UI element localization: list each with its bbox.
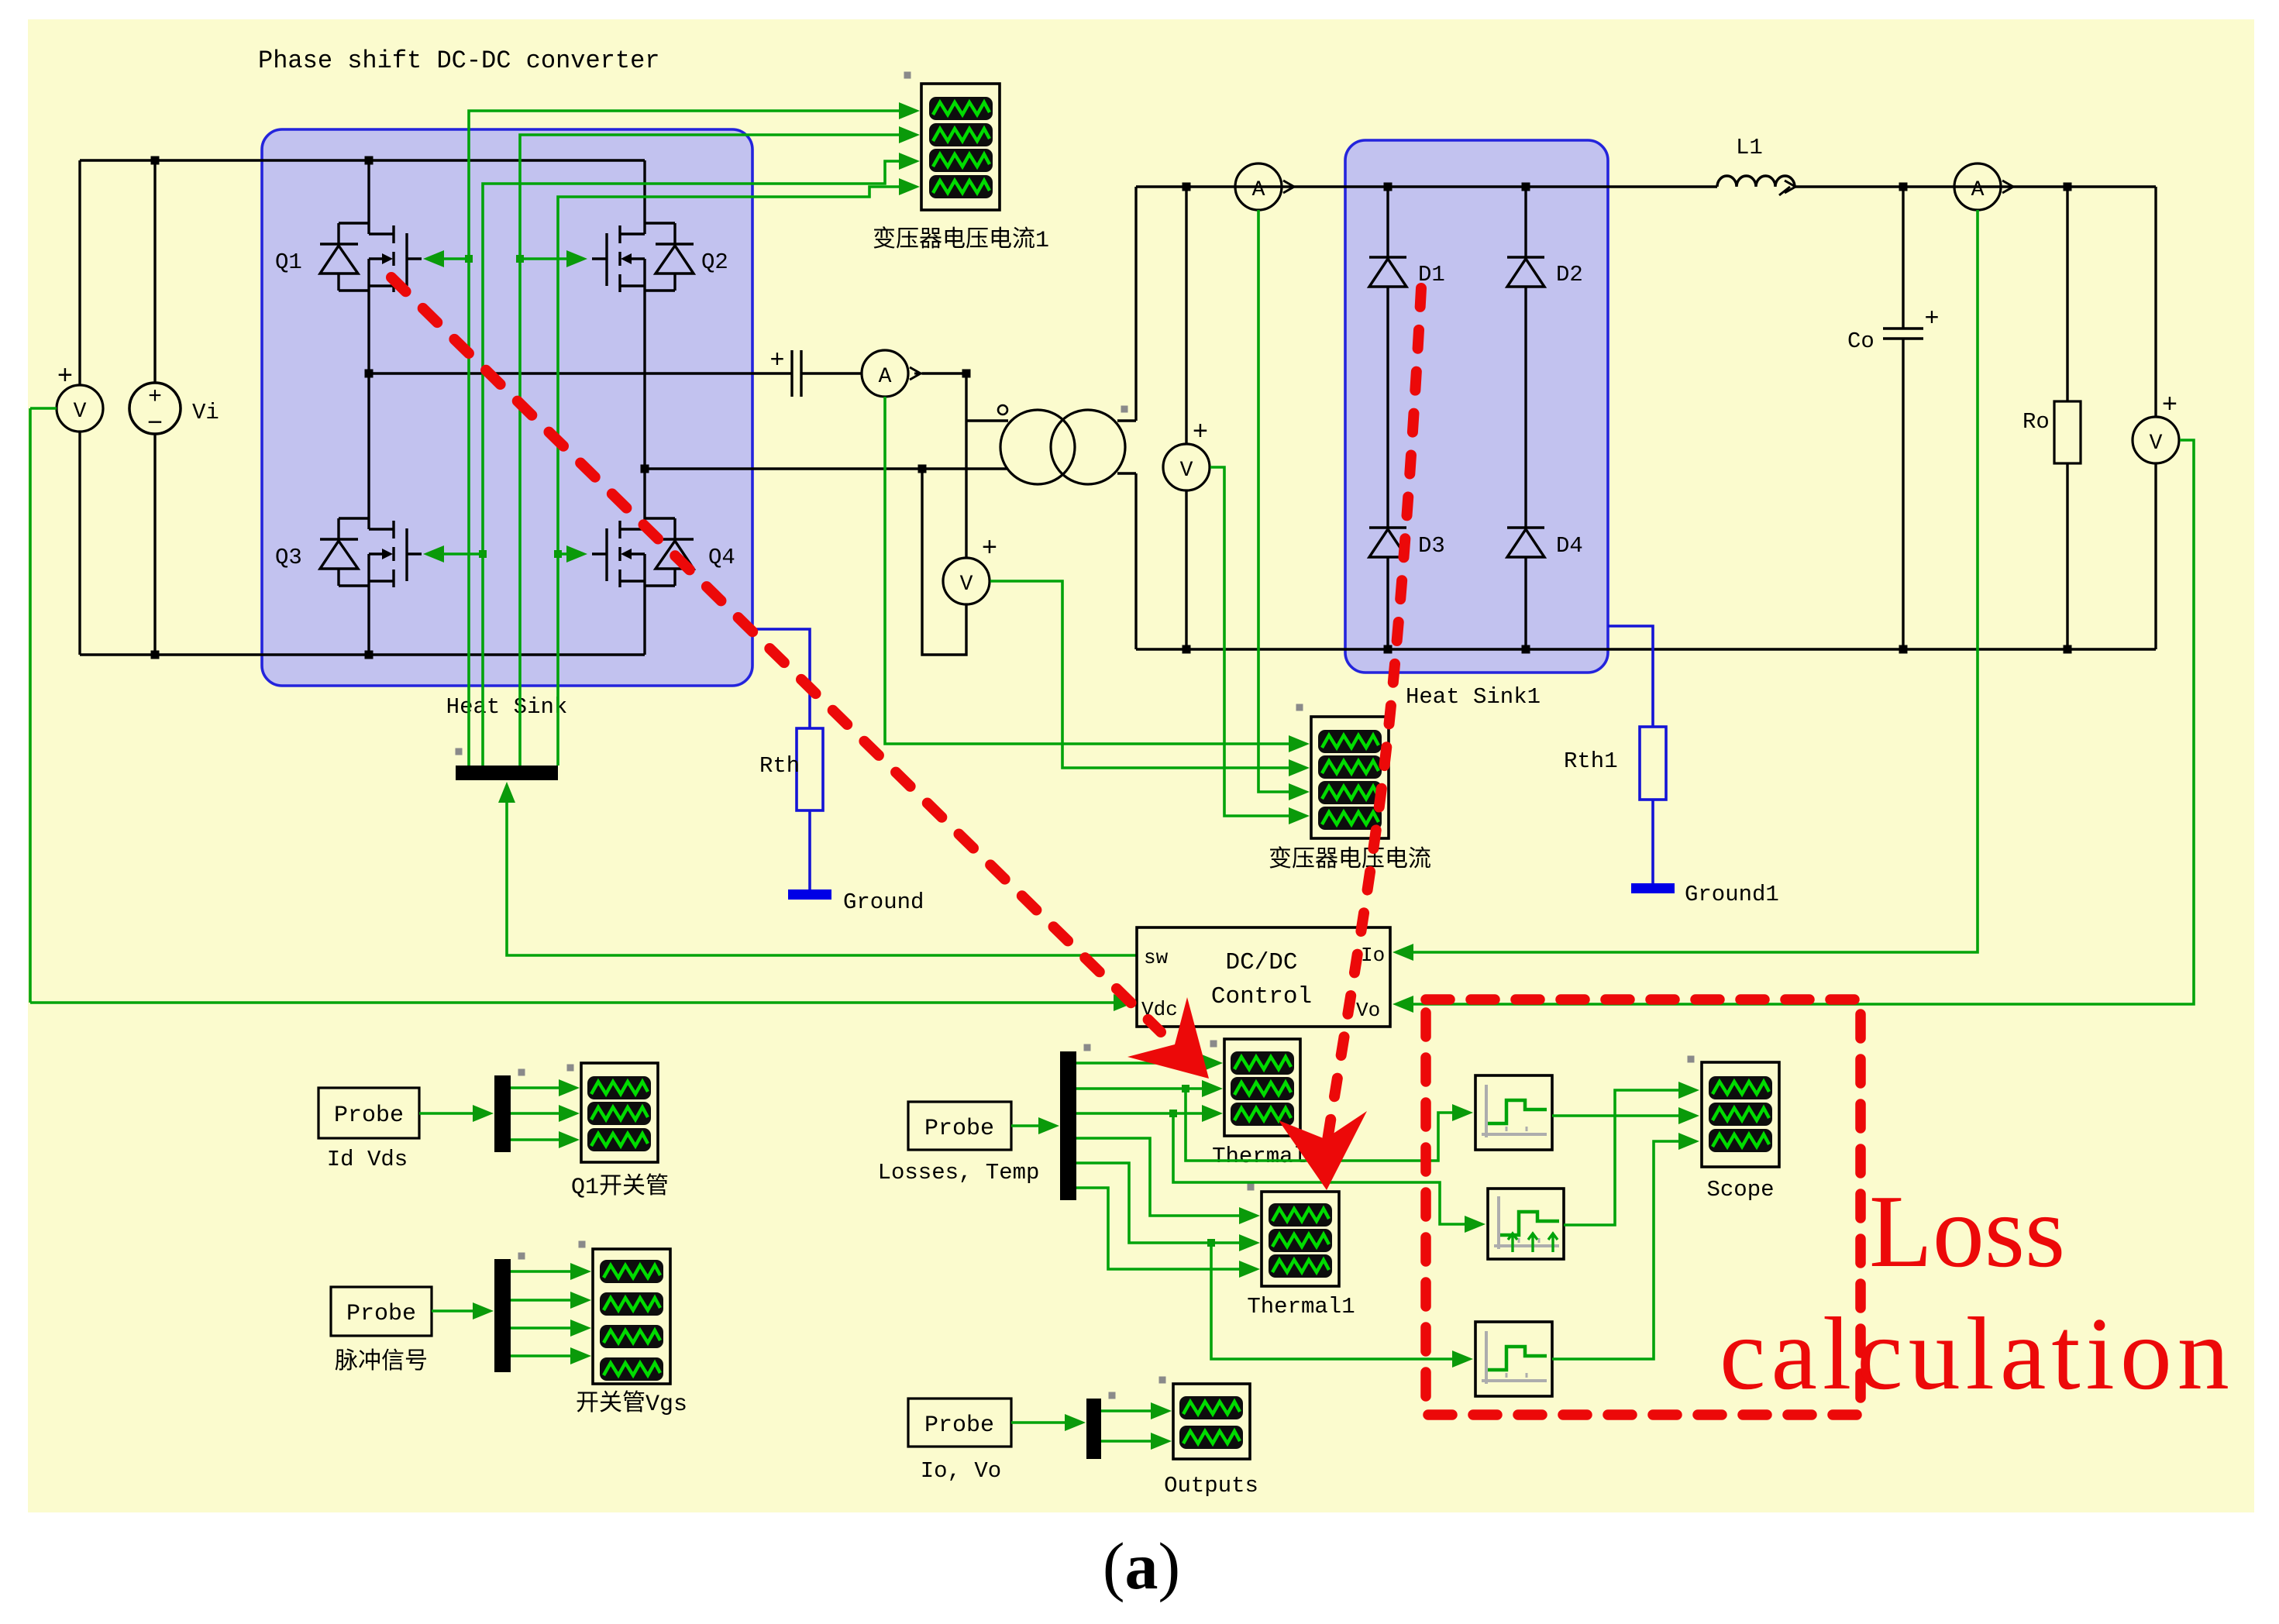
- node: Vi top junction: [151, 157, 160, 165]
- label Heat Sink1: [1406, 684, 1541, 710]
- node: V3 top junction: [1183, 183, 1191, 191]
- svg-text:A: A: [1971, 178, 1985, 202]
- scope Thermal: [1210, 1039, 1301, 1136]
- scope 变压器电压电流: [1296, 704, 1389, 839]
- wire: mux1 out3: [511, 1131, 580, 1148]
- wire: gate drive Q2 (to scope1 in2): [516, 126, 920, 766]
- label Q1: [275, 249, 302, 275]
- node: D2 top junction: [1522, 183, 1530, 191]
- wire: mux1 out1: [511, 1079, 580, 1096]
- scope Outputs: [1159, 1377, 1251, 1460]
- ground (Ground1): [1631, 883, 1675, 893]
- label L1: [1736, 135, 1763, 160]
- wire: mux3 out3 to Thermal in3: [1076, 1105, 1223, 1122]
- svg-text:V: V: [74, 400, 87, 424]
- transformer polarity mark primary: [998, 405, 1007, 415]
- wire: output voltmeter to Vo input: [1393, 440, 2194, 1013]
- ammeter A (output current): [1954, 163, 2013, 210]
- wire: mux3 out4 to Thermal1 in1: [1076, 1138, 1260, 1224]
- diode D3: [1369, 528, 1406, 649]
- wire: mux2 out1: [511, 1263, 591, 1280]
- node: Ro top junction: [2064, 183, 2072, 191]
- svg-text:Probe: Probe: [924, 1412, 994, 1439]
- transistor Q1: [320, 160, 422, 373]
- svg-text:变压器电压电流1: 变压器电压电流1: [873, 226, 1049, 254]
- wire: sw demux from DC/DC Control to heat sink bar: [498, 782, 1137, 955]
- label 脉冲信号: [335, 1348, 428, 1376]
- label Q1开关管: [571, 1173, 669, 1201]
- svg-text:Outputs: Outputs: [1164, 1473, 1258, 1498]
- wire: probe4 to mux4: [1011, 1414, 1086, 1431]
- capacitor Co: [1883, 187, 1940, 649]
- ammeter A (primary current): [862, 350, 966, 397]
- label 变压器电压电流1: [873, 226, 1049, 254]
- wire: probe3 to mux3: [1011, 1117, 1059, 1134]
- probe block Probe (Id Vds): [318, 1088, 419, 1138]
- wire: gate drive Q3 (to scope1 in3): [423, 153, 920, 766]
- svg-text:Losses, Temp: Losses, Temp: [878, 1160, 1040, 1185]
- controller DC/DC Control: [1137, 927, 1390, 1027]
- loss calculation block 1: [1475, 1075, 1552, 1150]
- transistor Q4: [592, 469, 694, 655]
- red annotation arrow from Q1 to Thermal: [391, 277, 1209, 1079]
- wire: mux1 out2: [511, 1105, 580, 1122]
- heat-sink box 2 (Heat Sink1): [1345, 140, 1608, 673]
- voltmeter V (primary voltage): [922, 469, 997, 655]
- wire: losses tap to loss block 3: [1211, 1243, 1473, 1368]
- svg-text:变压器电压电流: 变压器电压电流: [1269, 846, 1431, 874]
- svg-text:+: +: [57, 363, 73, 392]
- inductor L1: [1717, 176, 1795, 195]
- node: V3 bottom junction: [1183, 645, 1191, 654]
- svg-text:Id Vds: Id Vds: [327, 1147, 408, 1172]
- svg-text:D4: D4: [1556, 533, 1583, 559]
- svg-text:+: +: [769, 346, 784, 375]
- voltmeter V (output voltage): [2133, 187, 2179, 649]
- svg-text:Scope: Scope: [1706, 1177, 1774, 1203]
- ground (Ground): [788, 889, 831, 900]
- label Ground: [843, 889, 924, 915]
- scope 开关管Vgs: [579, 1241, 671, 1385]
- wire: mux2 out3: [511, 1319, 591, 1337]
- probe block Probe (Losses, Temp): [908, 1102, 1011, 1150]
- mux4: [1086, 1392, 1116, 1460]
- node: Q3 source junction: [365, 651, 374, 659]
- wire: block1 output to Scope in2: [1552, 1107, 1699, 1124]
- probe block Probe (Io, Vo): [908, 1399, 1011, 1447]
- wire: input bottom rail: [80, 653, 645, 655]
- node: V2 return junction: [918, 465, 927, 473]
- svg-text:Heat Sink1: Heat Sink1: [1406, 684, 1541, 710]
- svg-text:Probe: Probe: [334, 1103, 404, 1129]
- svg-text:脉冲信号: 脉冲信号: [335, 1348, 428, 1376]
- svg-text:(a): (a): [1103, 1529, 1180, 1603]
- label Io, Vo: [921, 1458, 1001, 1484]
- svg-text:V: V: [960, 573, 973, 597]
- wire: bridge left-leg midpoint to capacitor: [369, 372, 791, 374]
- heat-sink box 1 (Heat Sink): [262, 129, 752, 686]
- svg-text:+: +: [982, 535, 997, 564]
- node: Ro bottom junction: [2064, 645, 2072, 654]
- svg-text:Q1: Q1: [275, 249, 302, 275]
- svg-text:Ground: Ground: [843, 889, 924, 915]
- diode D1: [1369, 187, 1406, 528]
- wire: gate drive Q1 (to scope1 in1): [423, 102, 920, 766]
- wire: losses tap to loss block 1: [1186, 1089, 1473, 1161]
- label Vi: [192, 400, 219, 425]
- svg-text:Io, Vo: Io, Vo: [921, 1458, 1001, 1484]
- wire: input top rail: [80, 159, 645, 161]
- node: Co top junction: [1899, 183, 1908, 191]
- wire: Vdc feedback from input voltmeter: [30, 994, 1134, 1011]
- wire: output ammeter to Io input: [1393, 210, 1978, 961]
- label Ro: [2023, 409, 2050, 435]
- wire: output top rail: [1136, 185, 2156, 188]
- wire: mux4 out2: [1101, 1433, 1172, 1450]
- svg-text:Probe: Probe: [924, 1116, 994, 1142]
- svg-text:V: V: [2150, 432, 2163, 456]
- red annotation dashed box (loss calculation): [1426, 1000, 1861, 1415]
- mux2: [494, 1253, 525, 1373]
- source Vi: [129, 160, 181, 655]
- svg-text:A: A: [879, 365, 892, 389]
- svg-text:Heat Sink: Heat Sink: [446, 694, 568, 720]
- wire: primary voltmeter to scope in2: [990, 581, 1310, 776]
- svg-text:Thermal1: Thermal1: [1247, 1294, 1355, 1319]
- node: D1 top junction: [1384, 183, 1393, 191]
- label Losses, Temp: [878, 1160, 1040, 1185]
- wire: losses tap to loss block 2: [1173, 1113, 1485, 1233]
- red annotation arrow from D1 to Thermal1: [1279, 288, 1421, 1190]
- svg-text:Thermal: Thermal: [1212, 1144, 1306, 1169]
- wire: mux3 out6 to Thermal1 in3: [1076, 1188, 1260, 1278]
- wire: probe2 to mux2: [432, 1302, 494, 1319]
- svg-text:sw: sw: [1144, 946, 1169, 969]
- svg-text:Vi: Vi: [192, 400, 219, 425]
- wire: mux3 out2 to Thermal in2: [1076, 1080, 1223, 1097]
- annotation text Loss: [1869, 1174, 2065, 1289]
- svg-text:D2: D2: [1556, 262, 1583, 287]
- svg-text:Q4: Q4: [708, 545, 735, 570]
- label Outputs: [1164, 1473, 1258, 1498]
- transformer TR1: [1000, 187, 1136, 649]
- label Scope: [1706, 1177, 1774, 1203]
- scope Thermal1: [1248, 1184, 1340, 1287]
- svg-text:Co: Co: [1847, 329, 1874, 354]
- pin Vo: [1356, 999, 1380, 1022]
- label D4: [1556, 533, 1583, 559]
- label Q2: [701, 249, 728, 275]
- label Co: [1847, 329, 1874, 354]
- wire: block3 output to Scope in3: [1552, 1133, 1699, 1359]
- label Q3: [275, 545, 302, 570]
- svg-text:Q1开关管: Q1开关管: [571, 1173, 669, 1201]
- node: Q1 drain junction: [365, 157, 374, 165]
- voltmeter V (input): [57, 160, 103, 655]
- wire: junction down to V meter and transformer primary: [966, 373, 1008, 558]
- capacitor C1 (dc blocking): [769, 346, 862, 397]
- label D1: [1418, 262, 1445, 287]
- heat sink thermal bar: [456, 748, 559, 781]
- scope 变压器电压电流1: [904, 72, 1000, 211]
- ammeter A (rectifier current): [1235, 163, 1294, 210]
- svg-text:Q2: Q2: [701, 249, 728, 275]
- svg-text:Rth: Rth: [759, 753, 800, 779]
- diode D4: [1507, 528, 1544, 649]
- transistor Q3: [320, 373, 422, 655]
- label Rth: [759, 753, 800, 779]
- pin Vdc: [1141, 998, 1178, 1021]
- svg-text:+: +: [1193, 418, 1208, 448]
- svg-text:Rth1: Rth1: [1564, 748, 1618, 774]
- label D3: [1418, 533, 1445, 559]
- label Q4: [708, 545, 735, 570]
- wire: mux4 out1: [1101, 1402, 1172, 1419]
- pin Io: [1361, 944, 1385, 967]
- svg-text:Io: Io: [1361, 944, 1385, 967]
- scope Q1开关管: [567, 1063, 659, 1162]
- label Thermal: [1212, 1144, 1306, 1169]
- svg-text:Ground1: Ground1: [1685, 882, 1779, 907]
- mux3: [1060, 1044, 1091, 1201]
- wire: V meter green output: [30, 408, 57, 1003]
- wire: mux3 out5 to Thermal1 in2: [1076, 1163, 1260, 1251]
- pin sw: [1144, 946, 1169, 969]
- resistor Ro: [2054, 187, 2081, 649]
- node: transformer primary top junction: [962, 370, 971, 378]
- label Id Vds: [327, 1147, 408, 1172]
- svg-text:+: +: [1924, 304, 1939, 333]
- svg-text:+: +: [148, 384, 162, 411]
- svg-text:A: A: [1252, 178, 1265, 202]
- mux1: [494, 1069, 525, 1153]
- caption (a): [1103, 1529, 1180, 1603]
- svg-text:Probe: Probe: [346, 1301, 416, 1327]
- thermal resistor Rth: [751, 629, 823, 889]
- node: right-leg midpoint junction: [641, 465, 649, 473]
- annotation text calculation: [1720, 1296, 2235, 1411]
- label D2: [1556, 262, 1583, 287]
- svg-text:L1: L1: [1736, 135, 1763, 160]
- wire: primary ammeter to scope in1: [885, 397, 1310, 752]
- label Ground1: [1685, 882, 1779, 907]
- svg-text:+: +: [2162, 391, 2177, 421]
- node: Co bottom junction: [1899, 645, 1908, 654]
- voltmeter V (rectifier input): [1163, 187, 1210, 649]
- transistor Q2: [592, 160, 694, 469]
- svg-text:V: V: [1180, 459, 1193, 483]
- wire: gate drive Q4 (to scope1 in4): [554, 178, 920, 766]
- loss calculation block 3: [1475, 1322, 1552, 1396]
- svg-text:DC/DC: DC/DC: [1225, 949, 1297, 976]
- node: D3 bottom junction: [1384, 645, 1393, 654]
- diode D2: [1507, 187, 1544, 528]
- node: left-leg midpoint junction: [365, 370, 374, 378]
- svg-text:Q3: Q3: [275, 545, 302, 570]
- node: Vi bottom junction: [151, 651, 160, 659]
- wire: mux2 out4: [511, 1347, 591, 1364]
- label Thermal1: [1247, 1294, 1355, 1319]
- wire: mux2 out2: [511, 1292, 591, 1309]
- probe block Probe (pulse signals): [331, 1287, 432, 1336]
- wire: rectifier ammeter to scope in3: [1258, 210, 1310, 800]
- wire: rectifier voltmeter to scope in4: [1210, 467, 1310, 824]
- scope Scope: [1688, 1056, 1780, 1168]
- svg-text:Control: Control: [1211, 983, 1312, 1010]
- wire: output bottom rail: [1136, 648, 2156, 650]
- svg-text:开关管Vgs: 开关管Vgs: [576, 1390, 687, 1418]
- wire: block2 output to Scope in1: [1564, 1082, 1699, 1225]
- loss calculation block 2: [1488, 1189, 1564, 1259]
- label Heat Sink: [446, 694, 568, 720]
- label 变压器电压电流: [1269, 846, 1431, 874]
- svg-text:Vo: Vo: [1356, 999, 1380, 1022]
- node: D4 bottom junction: [1522, 645, 1530, 654]
- svg-text:Ro: Ro: [2023, 409, 2050, 435]
- svg-text:Phase shift DC-DC converter: Phase shift DC-DC converter: [258, 46, 659, 75]
- svg-text:D3: D3: [1418, 533, 1445, 559]
- thermal resistor Rth1: [1608, 626, 1666, 883]
- label Rth1: [1564, 748, 1618, 774]
- svg-text:Loss: Loss: [1869, 1174, 2065, 1289]
- svg-text:calculation: calculation: [1720, 1296, 2235, 1411]
- wire: mux3 out1 to Thermal in1: [1076, 1055, 1223, 1072]
- label 开关管Vgs: [576, 1390, 687, 1418]
- wire: bridge right-leg midpoint to transformer: [645, 467, 1008, 470]
- wire: probe1 to mux1: [419, 1105, 494, 1122]
